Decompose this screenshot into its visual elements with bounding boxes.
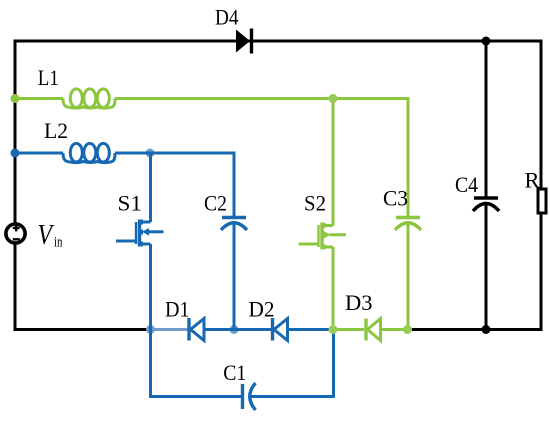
svg-text:C4: C4 [455, 172, 478, 197]
svg-text:D1: D1 [165, 297, 190, 322]
svg-text:R: R [525, 168, 540, 193]
svg-text:L1: L1 [38, 65, 59, 90]
svg-text:D4: D4 [215, 5, 239, 30]
svg-text:C1: C1 [223, 360, 246, 385]
svg-text:C3: C3 [383, 186, 408, 211]
svg-text:C2: C2 [204, 191, 227, 216]
svg-text:D2: D2 [249, 297, 275, 322]
svg-text:S2: S2 [304, 191, 326, 216]
svg-text:D3: D3 [345, 290, 373, 315]
svg-text:in: in [54, 235, 63, 251]
svg-text:L2: L2 [44, 118, 68, 143]
svg-text:V: V [38, 220, 55, 251]
svg-text:S1: S1 [118, 191, 143, 216]
